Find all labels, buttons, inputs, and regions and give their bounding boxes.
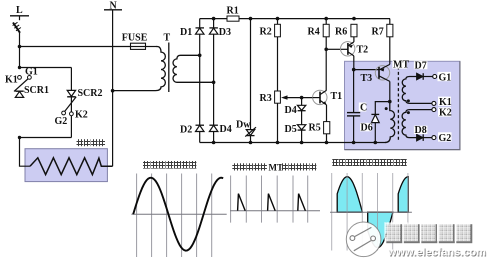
terminal K2	[432, 107, 452, 118]
svg-text:G1: G1	[439, 72, 452, 83]
svg-text:D4: D4	[220, 124, 232, 135]
wf3 lobe 1 (positive, cyan)	[337, 177, 362, 213]
node R5 bottom rail junction	[325, 141, 329, 145]
logo small circle 2	[371, 236, 376, 241]
resistor R7	[372, 24, 393, 37]
SCR2 branch wire	[70, 68, 72, 138]
svg-text:G1: G1	[25, 66, 38, 77]
bridge column 1 wire	[199, 19, 201, 143]
svg-text:K2: K2	[439, 108, 452, 119]
svg-text:C: C	[360, 102, 367, 113]
wire T2 emitter to R6	[353, 37, 355, 42]
capacitor C	[347, 102, 367, 116]
MT core dashed	[397, 67, 399, 141]
watermark logo disc	[346, 222, 381, 257]
svg-text:T1: T1	[331, 91, 343, 102]
wire N down	[112, 10, 114, 166]
MT secondary 2	[402, 110, 432, 138]
D4/D5 column wire	[301, 98, 303, 143]
resistor R1	[227, 5, 240, 21]
svg-text:R3: R3	[260, 93, 272, 104]
MT label	[392, 60, 409, 71]
svg-text:D6: D6	[361, 122, 373, 133]
svg-text:D1: D1	[180, 27, 192, 38]
terminal G1	[433, 72, 452, 83]
wf2 title CJK: 脉冲变压器MT一次侧波形	[232, 163, 267, 170]
svg-text:G2: G2	[439, 133, 452, 144]
wire T2 base	[326, 48, 341, 50]
node secondary bottom	[212, 81, 216, 85]
bottom rail	[200, 142, 387, 144]
wf2 grid lines	[231, 176, 308, 223]
wf3 title CJK: 电热装置两端的电压波形	[332, 159, 406, 166]
svg-text:K2: K2	[75, 110, 88, 121]
svg-text:K1: K1	[439, 97, 452, 108]
heater resistor zigzag	[30, 158, 113, 175]
thyristor SCR1	[5, 66, 49, 97]
wire rail to R7	[389, 19, 391, 25]
svg-text:T: T	[164, 33, 171, 44]
transformer T secondary	[173, 55, 214, 82]
wire FUSE to transformer	[146, 46, 157, 48]
svg-text:R1: R1	[227, 5, 239, 16]
diode D4 (mid)	[285, 105, 306, 116]
node MT primary top junction	[388, 100, 392, 104]
fuse FUSE	[122, 33, 148, 50]
R2/R3 column wire	[277, 19, 279, 143]
logo small circle 1	[350, 236, 355, 241]
top rail	[200, 18, 390, 20]
diode D6	[360, 114, 379, 133]
wf2 axis	[230, 210, 320, 212]
wire R7 to T3 emitter	[389, 37, 391, 65]
terminal K1	[432, 97, 452, 108]
wf1 grid lines	[137, 174, 212, 258]
svg-text:G2: G2	[55, 116, 68, 127]
svg-text:MT: MT	[269, 163, 284, 173]
wf1 title CJK: 单相交流电波形	[143, 161, 196, 169]
wf3 axis	[330, 211, 412, 213]
node R6 top rail junction	[352, 17, 356, 21]
zener Dw	[236, 120, 256, 137]
transformer T primary	[113, 47, 166, 91]
svg-text:SCR1: SCR1	[24, 85, 49, 96]
bridge column 2 wire	[213, 19, 215, 143]
diode D1	[180, 27, 204, 38]
svg-text:R6: R6	[335, 26, 347, 37]
svg-text:R2: R2	[260, 26, 272, 37]
pulse 3	[298, 194, 306, 211]
transformer T core	[168, 43, 170, 93]
heater label CJK: 电热装置	[77, 139, 106, 146]
resistor R6	[335, 24, 357, 37]
svg-text:SCR2: SCR2	[78, 88, 103, 99]
svg-text:D5: D5	[285, 124, 297, 135]
svg-text:D8: D8	[415, 125, 427, 136]
wf1 sine curve	[133, 178, 223, 251]
secondary1 polarity dot	[407, 99, 410, 102]
diode D5	[285, 124, 306, 135]
wire capacitor to bottom rail	[353, 116, 355, 143]
svg-text:www.elecfans.com: www.elecfans.com	[387, 247, 486, 259]
transistor T1	[313, 90, 343, 105]
svg-text:K1: K1	[5, 74, 18, 85]
diode D2	[180, 124, 204, 135]
svg-text:D4: D4	[285, 105, 297, 116]
wire L to FUSE	[20, 46, 131, 48]
svg-text:L: L	[16, 5, 23, 16]
svg-text:D2: D2	[180, 124, 192, 135]
logo line A	[355, 227, 372, 236]
node L junction	[18, 45, 22, 49]
pulse 2	[268, 194, 276, 211]
wire R5 to bottom rail	[326, 134, 328, 143]
heater device purple box	[25, 149, 107, 182]
wf3 grid lines over lobes	[332, 173, 408, 251]
resistor R4	[308, 24, 330, 37]
diode D7	[414, 60, 433, 80]
node N-primary junction	[111, 89, 115, 93]
node T2 collector / C / T3 base junction	[352, 68, 356, 72]
knife switch on L	[13, 22, 21, 33]
terminal G2	[432, 132, 452, 144]
node D6 bottom rail junction	[374, 141, 378, 145]
secondary2 polarity dot	[407, 111, 410, 114]
R4 column wire	[325, 19, 327, 91]
wf3 lobe 3 (positive, cut off)	[398, 177, 408, 213]
svg-text:Dw: Dw	[236, 120, 251, 131]
resistor R5	[309, 122, 330, 134]
diode D4 (bridge)	[209, 124, 231, 135]
svg-text:R5: R5	[309, 122, 321, 133]
wire node to T3 base	[354, 69, 379, 71]
node secondary top	[198, 54, 202, 58]
svg-text:T2: T2	[357, 44, 369, 55]
diode D8	[414, 125, 432, 141]
wf1 axis	[131, 213, 226, 215]
svg-text:FUSE: FUSE	[122, 33, 148, 44]
svg-text:R4: R4	[308, 26, 320, 37]
wire left line down to heater	[20, 138, 31, 167]
MT primary polarity dot	[385, 107, 388, 110]
L terminal	[10, 5, 29, 20]
wire T2 collector down	[353, 56, 355, 70]
potentiometer R3	[260, 91, 313, 104]
transistor T2	[341, 42, 369, 56]
watermark CJK text 电子发烧友 (white layer)	[385, 222, 471, 241]
diode D3	[209, 27, 231, 38]
thyristor SCR2	[55, 88, 103, 127]
logo line B	[354, 241, 371, 251]
SCR pair top horizontal wire	[20, 67, 72, 69]
wire L down	[19, 33, 21, 68]
svg-text:MT: MT	[393, 60, 409, 71]
wire T3 collector to MT primary	[389, 81, 391, 101]
wire T1 emitter to R5	[326, 105, 328, 122]
svg-text:D3: D3	[219, 27, 231, 38]
svg-text:R7: R7	[372, 26, 384, 37]
trigger circuit purple box	[345, 61, 460, 149]
pulse 1	[238, 194, 246, 211]
pulse transformer MT primary coil	[385, 102, 395, 143]
transistor T3	[361, 64, 390, 84]
node C bottom rail junction	[352, 141, 356, 145]
zener Dw column wire	[250, 19, 252, 143]
wire node to capacitor	[353, 70, 355, 112]
watermark CJK text 电子发烧友 (gray shadow layer)	[386, 224, 472, 243]
wire D6 branch	[375, 102, 390, 143]
svg-text:T3: T3	[361, 73, 373, 84]
N terminal	[104, 1, 122, 12]
wf3 lobe 2 (negative, cyan)	[368, 212, 393, 248]
SCR pair bottom horizontal wire	[20, 137, 72, 139]
svg-text:D7: D7	[415, 60, 427, 71]
resistor R2	[260, 24, 281, 37]
MT secondary 1	[402, 77, 432, 104]
